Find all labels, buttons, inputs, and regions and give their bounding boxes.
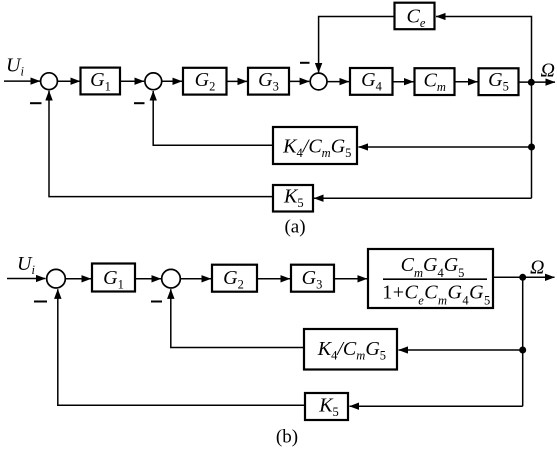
wire output node down right side (a) bbox=[531, 82, 533, 198]
minus sign at S3a bbox=[300, 62, 310, 64]
block Ce bbox=[395, 3, 435, 30]
node junction dot K4 row (b) bbox=[519, 347, 526, 354]
block K5 (b) bbox=[305, 393, 348, 420]
wire right side down to K5 row (a) bbox=[314, 197, 532, 199]
wire S1a to G1 bbox=[58, 80, 81, 82]
block CmG4G5/(1+CeCmG4G5) bbox=[368, 249, 493, 308]
block K5 (a) bbox=[273, 185, 313, 212]
summing junction S1a bbox=[41, 73, 58, 90]
wire G4 to Cm bbox=[393, 81, 414, 83]
svg-text:(a): (a) bbox=[284, 216, 305, 237]
node junction dot output (b) bbox=[519, 274, 526, 281]
svg-text:Ω: Ω bbox=[541, 60, 555, 82]
wire K5 to summer S1b bbox=[58, 289, 305, 405]
summing junction S3a bbox=[310, 73, 327, 90]
wire G1 to summer S2a bbox=[120, 80, 144, 82]
svg-text:(b): (b) bbox=[276, 427, 298, 448]
minus sign at S2b bbox=[151, 301, 162, 303]
wire G5 to output (a) bbox=[519, 81, 556, 83]
svg-text:K4/CmG5: K4/CmG5 bbox=[317, 338, 386, 363]
summing junction S1b bbox=[47, 269, 66, 288]
wire Ce to summer S3a bbox=[319, 17, 395, 73]
wire G2 to G3 bbox=[227, 80, 248, 82]
summing junction S2b bbox=[162, 269, 181, 288]
block G1 (b) bbox=[92, 264, 135, 292]
wire G1 to summer S2b bbox=[135, 278, 161, 280]
wire output node down right side (b) bbox=[522, 277, 524, 406]
block G4 (a) bbox=[350, 68, 393, 95]
wire node to K4/CmG5 block (a) bbox=[359, 146, 532, 148]
wire Cm to G5 bbox=[455, 81, 478, 83]
wire G2 to G3 bbox=[257, 278, 290, 280]
block G2 (b) bbox=[212, 265, 257, 292]
block G5 (a) bbox=[479, 68, 519, 95]
block G3 (b) bbox=[291, 265, 334, 292]
minus sign at S2a bbox=[134, 102, 145, 104]
svg-text:Ui: Ui bbox=[6, 55, 24, 79]
wire K4/CmG5 to summer S2b bbox=[171, 289, 304, 347]
block G1 (a) bbox=[81, 68, 121, 95]
wire S2a to G2 bbox=[162, 80, 182, 82]
svg-text:Ω: Ω bbox=[530, 257, 544, 279]
svg-text:Ui: Ui bbox=[17, 253, 35, 277]
wire output node up to Ce feedback bbox=[436, 17, 532, 83]
block Cm (a) bbox=[415, 68, 455, 95]
block K4/CmG5 (a) bbox=[273, 127, 357, 164]
block K4/CmG5 (b) bbox=[304, 329, 397, 370]
wire S1b to G1 bbox=[66, 278, 92, 280]
wire transfer block to output (b) bbox=[493, 276, 555, 278]
wire node to K4/CmG5 block (b) bbox=[399, 349, 523, 351]
wire input to summer S1b bbox=[7, 278, 46, 280]
minus sign at S1b bbox=[34, 301, 47, 303]
block G3 (a) bbox=[248, 68, 289, 95]
wire K4/CmG5 to summer S2a bbox=[153, 91, 273, 145]
wire S3a to G4 bbox=[327, 81, 349, 83]
wire right side down to K5 row (b) bbox=[350, 405, 523, 407]
block G2 (a) bbox=[183, 68, 227, 95]
wire K5 to summer S1a bbox=[49, 91, 273, 197]
node junction dot K4 row (a) bbox=[528, 144, 535, 151]
wire S2b to G2 bbox=[181, 278, 212, 280]
wire G3 to transfer-function block bbox=[334, 278, 367, 280]
minus sign at S1a bbox=[30, 102, 42, 104]
wire input to summer S1a bbox=[4, 80, 40, 82]
summing junction S2a bbox=[145, 73, 162, 90]
node junction dot output (a) bbox=[528, 79, 535, 86]
svg-text:K4/CmG5: K4/CmG5 bbox=[282, 135, 351, 160]
wire G3 to summer S3a bbox=[289, 80, 309, 82]
